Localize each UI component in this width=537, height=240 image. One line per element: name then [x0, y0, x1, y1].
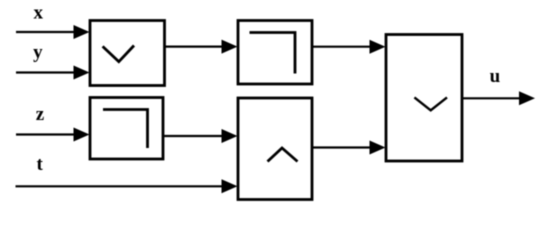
svg-text:z: z: [36, 104, 45, 125]
svg-text:y: y: [33, 42, 43, 63]
svg-text:t: t: [37, 154, 44, 175]
svg-text:x: x: [33, 2, 43, 23]
svg-text:u: u: [490, 66, 501, 87]
